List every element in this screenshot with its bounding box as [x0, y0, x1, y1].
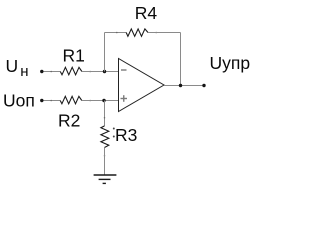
svg-text:R4: R4	[135, 3, 158, 23]
wire feedback top rail left segment	[105, 32, 127, 34]
pin tick R4 left	[116, 32, 118, 34]
svg-text:R2: R2	[58, 111, 80, 131]
wire feedback top rail right segment	[148, 32, 181, 34]
node Uоп input terminal	[40, 99, 43, 102]
pin tick R2 left	[50, 100, 52, 102]
op-amp plus sign	[121, 95, 128, 102]
wire R3 vertical upper	[104, 101, 106, 126]
node Uупр output terminal	[202, 84, 205, 87]
pin tick R3 top	[104, 117, 106, 119]
resistor R1	[60, 67, 82, 75]
resistor R4	[126, 29, 148, 36]
pin tick R2 right	[89, 100, 91, 102]
svg-text:Uоп: Uоп	[3, 90, 35, 110]
node B junction R2/R3	[102, 99, 105, 102]
svg-text:U: U	[6, 56, 19, 76]
ground	[94, 175, 117, 183]
resistor R2	[60, 96, 82, 104]
wire Uн input to R1	[42, 71, 61, 73]
node A junction R1/feedback	[103, 70, 106, 73]
svg-text:Uупр: Uупр	[210, 53, 251, 73]
wire R3 to ground	[104, 148, 106, 176]
wire Uоп input to R2	[42, 100, 61, 102]
svg-text:R1: R1	[63, 46, 85, 66]
op-amp U1	[119, 59, 165, 112]
label R3 colon dots	[113, 128, 115, 130]
pin tick R3 bottom	[104, 155, 106, 157]
pin tick R1 left	[50, 71, 52, 73]
node Uн input terminal	[40, 70, 43, 73]
op-amp minus sign	[121, 69, 127, 71]
resistor R3	[101, 126, 109, 148]
wire R2 to op-amp non-inverting input	[82, 100, 119, 102]
node output/feedback junction	[179, 84, 182, 87]
svg-text:н: н	[20, 63, 28, 80]
wire feedback vertical right down to output	[180, 33, 182, 86]
pin tick R4 right	[155, 32, 157, 34]
wire R1 to op-amp inverting input	[82, 71, 119, 73]
pin tick R1 right	[89, 71, 91, 73]
svg-text:R3: R3	[115, 125, 137, 145]
wire feedback vertical left	[104, 33, 106, 72]
wire op-amp output	[164, 85, 204, 87]
